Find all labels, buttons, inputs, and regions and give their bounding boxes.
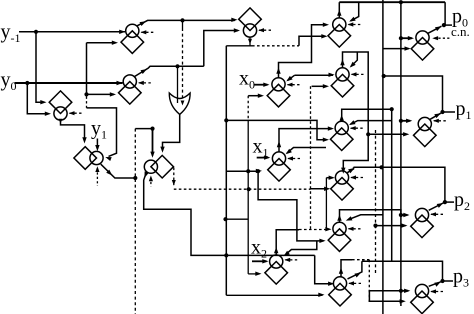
svg-text:y1: y1 bbox=[91, 118, 107, 142]
diag input into R2 bbox=[351, 52, 358, 67]
wire OR gate left input bbox=[177, 66, 179, 103]
R4 circle-left feed riser from X2 out line bbox=[325, 178, 327, 230]
cell P3 bbox=[411, 291, 434, 314]
wire L4 output diagonal down-right to dashed column bbox=[101, 164, 136, 178]
p3 output node and rail to bus x=391.7 bbox=[429, 282, 441, 287]
p1 output node and link to bus 382.9 bbox=[430, 113, 441, 119]
wire R1 output up to top bus bbox=[338, 2, 340, 18]
node top bus tap to vertical p-bus bbox=[399, 0, 403, 4]
wire R3 output up then right to bus x=391.7 bbox=[342, 109, 392, 121]
wire R5 output up then right to p2 feed corner bbox=[340, 210, 401, 222]
arrow into M6 diamond bbox=[231, 18, 237, 22]
dashed tail below node bbox=[86, 97, 88, 108]
cell R3 bbox=[330, 128, 353, 151]
wire X0 output up then right to R1 bbox=[279, 25, 328, 78]
node R2 chain to p1 diamond bbox=[366, 132, 370, 136]
wire L3 output down then right into L4 diamond top bbox=[61, 120, 85, 141]
svg-text:x2: x2 bbox=[251, 237, 267, 261]
dashed carry stub bbox=[141, 31, 154, 33]
arrow from x0 label into circle bbox=[255, 84, 268, 86]
wire M6 left branch down x=226.3 to bottom rail bbox=[225, 46, 227, 295]
wire top bus corner down to p0 node bbox=[444, 2, 446, 25]
connector y=219.2 bbox=[223, 217, 227, 221]
diag input into X2 from upper right bbox=[285, 241, 317, 255]
wire top of dashed column to L5 circle top feed bbox=[135, 128, 152, 130]
dashed carry stub bbox=[349, 282, 362, 284]
c.n. dashed input bbox=[434, 37, 451, 39]
wire y-1 branch down to L3 diamond bbox=[36, 32, 45, 102]
cell P1 bbox=[414, 124, 437, 147]
svg-text:c.n.: c.n. bbox=[451, 24, 470, 39]
wire L2 output diagonal to rail y=66.3 bbox=[134, 66, 203, 76]
dashed output of L5 diamond right vertex bbox=[173, 168, 175, 188]
cell L2 (y0 row) bbox=[119, 82, 142, 105]
node on dashed carry line bbox=[247, 187, 251, 191]
cell R1 bbox=[328, 25, 351, 48]
wire y0 branch down to L3 circle bbox=[27, 83, 49, 114]
cell R5 bbox=[328, 229, 351, 252]
wire R5 diamond feed staircase from X1 feed line bbox=[256, 169, 260, 173]
svg-text:p1: p1 bbox=[456, 98, 472, 122]
svg-text:x0: x0 bbox=[239, 68, 255, 92]
svg-text:y0: y0 bbox=[1, 69, 17, 93]
node L2 output tap to OR gate bbox=[175, 64, 179, 68]
bottom rail to R6 diamond bbox=[226, 294, 322, 296]
hook down into R6 circle bbox=[315, 255, 333, 283]
p-bus x=400.9 from top bus down bbox=[400, 2, 402, 306]
arrow from x1 label into circle bbox=[257, 157, 269, 159]
node L1 output tap bbox=[180, 18, 184, 22]
dashed carry stub bbox=[434, 120, 447, 122]
cell R2 bbox=[331, 74, 354, 97]
wire into X0 diamond bbox=[248, 95, 262, 97]
dashed bus x=375.5 bbox=[375, 130, 377, 275]
cell X0 bbox=[267, 84, 290, 107]
dashed drop x=369.3 bbox=[368, 260, 370, 302]
node bus y=120.4 start bbox=[224, 118, 228, 122]
diag input into X0 from upper right, shared line to R2 circle bbox=[295, 74, 334, 76]
svg-text:x1: x1 bbox=[253, 136, 269, 160]
p0 output node bbox=[428, 26, 441, 33]
dashed carry stub bbox=[285, 259, 298, 261]
p3 circle-left feed from p-bus bbox=[399, 289, 403, 293]
node y-1 junction bbox=[34, 30, 38, 34]
wire into R2 diamond from dashed riser bbox=[312, 85, 327, 87]
solid bus x=382.9 full height bbox=[382, 0, 384, 314]
wire L5 solid output down-left then staircase to x2 row bbox=[144, 172, 315, 256]
wire R2 output up right and down to R4 circle top bbox=[343, 52, 369, 172]
dashed carry stub bbox=[351, 177, 364, 179]
cell R6 bbox=[329, 283, 352, 306]
wire M6 right branch up to R1 diamond bbox=[299, 36, 326, 46]
p2 circle-left feed from p-bus bbox=[399, 213, 403, 217]
long dashed vertical column x=134.8 bbox=[134, 129, 136, 314]
R4 output diag up-right to p2 rail bbox=[347, 167, 353, 172]
wire X2 output up then right to R5 circle bbox=[276, 230, 299, 255]
cell X1 bbox=[268, 159, 291, 182]
dashed stub under L5 circle bbox=[150, 178, 152, 187]
svg-text:p2: p2 bbox=[454, 189, 470, 213]
dashed carry stub bbox=[431, 213, 444, 215]
R6 diag output up-right to p3 rail bbox=[348, 261, 362, 279]
wire L2 output up and right to M6 circle bbox=[204, 31, 238, 67]
svg-text:p3: p3 bbox=[453, 266, 469, 290]
cell L5 bbox=[151, 155, 174, 178]
cell X2 bbox=[265, 262, 288, 285]
dashed riser x=310.5 bbox=[310, 86, 312, 229]
dashed stub below L4 circle bbox=[96, 168, 98, 186]
cell P0 bbox=[411, 38, 434, 61]
wire into X1 diamond bbox=[226, 170, 260, 172]
dashed carry stub bbox=[431, 291, 444, 293]
dashed carry stub bbox=[139, 82, 152, 84]
cell R4 bbox=[331, 178, 354, 201]
node on bus x=391.7 bbox=[390, 107, 394, 111]
wire OR output to L5 diamond top bbox=[163, 114, 180, 150]
node L4 output on dashed column bbox=[133, 176, 137, 180]
node y0 junction bbox=[25, 81, 29, 85]
cell L4 bbox=[74, 147, 97, 170]
p0 circle-left feed from p-bus bbox=[399, 36, 403, 40]
node L5 chain joins bbox=[224, 253, 228, 257]
dashed carry stub bbox=[259, 29, 272, 31]
dashed carry stub bbox=[352, 73, 365, 75]
diag input into R1 from top bus branch bbox=[351, 2, 359, 21]
cell P2 bbox=[411, 215, 434, 238]
p2 output node and link to bus bbox=[429, 203, 444, 210]
wire y-1 input line bbox=[19, 31, 125, 33]
node L5 top feed bbox=[150, 127, 154, 131]
dashed carry stub bbox=[288, 84, 301, 86]
dashed carry stub bbox=[351, 127, 364, 129]
wire M6 output down then split left/right at y=45.8 bbox=[249, 37, 251, 46]
diag input into X1 from upper right bbox=[287, 148, 326, 154]
p1 circle-left feed from p-bus bbox=[399, 119, 403, 123]
dashed carry stub bbox=[349, 228, 362, 230]
diag input into R3 fed from solid bus bbox=[350, 121, 391, 125]
hook from p3 feed down to p3 diamond bbox=[369, 291, 403, 302]
p0 diamond-left feed from bus bbox=[383, 48, 409, 50]
dashed carry stub bbox=[348, 24, 361, 26]
node on x=86.5 bus bbox=[84, 92, 88, 96]
dashed vertical x=248.2 from x0 diamond to bus bbox=[247, 96, 249, 121]
wire vertical bus x=86.5 feeding L1/L2 diamonds bbox=[86, 43, 88, 95]
wire feed down-right into L4 circle right side bbox=[87, 108, 117, 156]
cell L3 bbox=[49, 91, 72, 114]
arrow into L1 circle bbox=[119, 30, 125, 34]
wire into X2 diamond bbox=[248, 273, 259, 275]
bus x=391.7 down to p3 rail bbox=[391, 109, 393, 261]
wire y0 input line bbox=[15, 82, 123, 84]
wire X1 output up then right to R3 circle bbox=[279, 129, 332, 152]
arrow into L2 circle bbox=[117, 81, 123, 85]
wire into R4 diamond from dashed riser bbox=[311, 188, 329, 190]
OR gate bbox=[169, 93, 190, 114]
cell M6 bbox=[239, 8, 262, 31]
dashed wire from L1 tap down to OR gate right input bbox=[182, 20, 184, 28]
diag input into R5 bbox=[348, 215, 383, 220]
svg-text:y-1: y-1 bbox=[1, 21, 21, 45]
horizontal bus y=120.4 to R3 diamond bbox=[226, 120, 327, 139]
wire y1 label into L4 circle top bbox=[96, 139, 98, 150]
wire L1 output diagonal to top rail bbox=[137, 20, 235, 26]
arrow from x2 label into circle bbox=[252, 260, 267, 262]
wire R6 output up then right, turning dashed bbox=[341, 260, 352, 277]
p2 diamond-left feed from dashed bus bbox=[373, 224, 377, 228]
top bus y=2.2 bbox=[339, 1, 445, 3]
cell L1 (y-1 row): diamond latch bbox=[121, 31, 144, 54]
dashed carry stub bbox=[288, 158, 301, 160]
dashed carry stub bbox=[70, 112, 83, 114]
dashed horizontal carry line y=189 bbox=[174, 188, 311, 190]
